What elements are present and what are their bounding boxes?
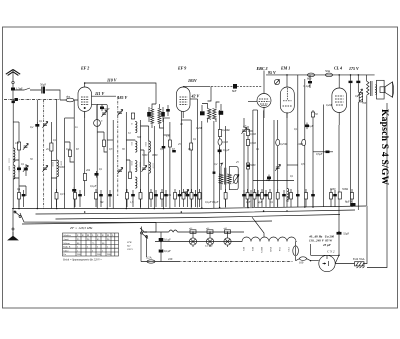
wire dash-dot gang link: [117, 96, 119, 196]
svg-text:220: 220: [168, 257, 173, 261]
resistor: [131, 113, 134, 119]
junction: [247, 207, 249, 209]
capacitor: [242, 190, 246, 207]
junction: [338, 74, 340, 76]
wire 95V bus right: [266, 70, 375, 75]
resistor: [198, 189, 201, 207]
main bus line 1: [12, 206, 366, 209]
speaker: [376, 80, 394, 99]
wire link: [248, 130, 253, 132]
wire 110V line: [84, 78, 156, 105]
resistor 1 M oval: [302, 139, 306, 145]
svg-text:111 V: 111 V: [95, 91, 105, 96]
coil antenna L1: [13, 148, 15, 162]
tube EF9: [177, 66, 191, 119]
capacitor: [154, 190, 158, 207]
junction: [106, 208, 108, 210]
coil Le: [149, 141, 151, 152]
capacitor at CL4 right 2: [356, 75, 360, 93]
barretter urdox: [293, 242, 299, 261]
capacitor: [194, 190, 198, 207]
svg-text:5000: 5000: [330, 188, 336, 191]
wire link: [107, 139, 113, 141]
capacitor 50 nF: [35, 122, 39, 129]
right loop from speaker: [367, 103, 387, 268]
wire: [163, 118, 165, 209]
svg-text:110...240 V 85 W: 110...240 V 85 W: [309, 239, 333, 243]
svg-text:185 V: 185 V: [118, 95, 128, 100]
wire 105V line: [183, 78, 262, 86]
svg-text:8μF +: 8μF +: [345, 200, 352, 204]
resistor 100: [296, 257, 319, 265]
svg-text:11111: 11111: [7, 158, 9, 163]
capacitor 0.1: [305, 123, 309, 130]
svg-text:0,1μF: 0,1μF: [90, 185, 97, 188]
capacitor: [249, 190, 253, 207]
svg-text:EM 1: EM 1: [280, 66, 290, 71]
wire AVC divider column: [219, 110, 221, 208]
trimmer capacitor: [42, 165, 47, 171]
wire: [323, 105, 325, 207]
junction: [209, 231, 211, 233]
coil oscillator Ld: [135, 177, 137, 188]
tube EF2: [78, 66, 92, 119]
trimmer capacitor: [117, 109, 122, 115]
svg-text:50nF: 50nF: [104, 108, 110, 111]
wire screen feed down: [153, 126, 155, 209]
svg-text:2nF: 2nF: [266, 179, 271, 182]
svg-text:0,1μF: 0,1μF: [307, 125, 314, 128]
resistor: [246, 130, 249, 136]
svg-text:8nF: 8nF: [232, 89, 237, 93]
output transformer primary zigzag: [367, 75, 373, 96]
wire coupling link: [253, 180, 294, 182]
capacitor 0.1: [218, 148, 222, 155]
capacitor 0.1uF upper: [159, 232, 171, 249]
capacitor at antenna column: [12, 101, 15, 104]
wire: [112, 120, 114, 209]
junction blob: [247, 165, 250, 167]
wire EF2 grid2 right: [92, 105, 97, 120]
svg-text:uka: uka: [66, 95, 71, 99]
svg-text:4μF: 4μF: [258, 201, 263, 204]
svg-text:1μF: 1μF: [246, 201, 251, 204]
trimmer capacitor: [241, 127, 246, 133]
wire: [286, 196, 288, 207]
capacitor: [264, 190, 268, 207]
wire: [64, 118, 66, 209]
mains switch: [140, 227, 148, 258]
junction: [84, 211, 86, 213]
svg-text:EF 2: EF 2: [80, 66, 89, 71]
dial lamp 2: [206, 230, 213, 247]
wire EF9 plate right: [190, 98, 198, 100]
wire rectifier to field coil: [335, 263, 354, 265]
capacitor 32uF: [337, 232, 350, 236]
resistor: [139, 189, 142, 207]
svg-text:0,4M: 0,4M: [326, 104, 332, 107]
resistor: [55, 189, 58, 207]
wire: [357, 102, 359, 210]
capacitor 0.1 at CL4 grid: [324, 151, 334, 154]
wire link osc: [126, 126, 148, 140]
capacitor: [282, 190, 286, 207]
junction: [312, 206, 314, 208]
svg-text:110 V: 110 V: [107, 78, 117, 83]
capacitor at CL4 right 1: [349, 75, 353, 106]
capacitor 8nF: [232, 84, 237, 93]
resistor: [150, 189, 153, 207]
capacitor 0.1uF lower: [159, 249, 171, 262]
resistor: [69, 150, 72, 157]
resistor 0.1 M oval: [218, 139, 222, 145]
capacitor: [296, 190, 300, 207]
capacitor: [108, 190, 112, 207]
svg-text:100: 100: [299, 261, 304, 265]
tube CL4: [332, 66, 359, 126]
resistor on 95V bus: [307, 73, 315, 80]
wire jog: [97, 132, 104, 140]
tube EBC3: [248, 66, 271, 118]
svg-text:0,1μF·0,1μF: 0,1μF·0,1μF: [205, 201, 219, 204]
junction: [358, 74, 360, 76]
resistor: [351, 189, 354, 207]
measurement table: [63, 233, 119, 256]
lamp rail bottom: [155, 241, 240, 243]
svg-text:50Ω: 50Ω: [325, 69, 330, 73]
junction blob: [213, 172, 216, 174]
capacitor beside coil: [166, 105, 170, 116]
potentiometer by EM1: [274, 79, 279, 84]
trimmer capacitor: [42, 121, 47, 127]
svg-text:31: 31: [130, 123, 132, 125]
wire: [197, 99, 199, 208]
junction: [160, 241, 162, 243]
resistor 40 k: [83, 174, 86, 181]
svg-text:95 V: 95 V: [268, 70, 276, 75]
wire trimmer column: [243, 118, 245, 207]
wire: [304, 79, 306, 207]
capacitor: [162, 146, 166, 148]
junction: [56, 208, 58, 210]
wire: [277, 120, 279, 207]
svg-text:0,2M: 0,2M: [196, 127, 202, 130]
junction: [227, 231, 229, 233]
junction: [304, 206, 306, 208]
svg-text:M: M: [107, 235, 109, 237]
wire: [56, 100, 58, 209]
svg-text:M: M: [87, 235, 89, 237]
wire: [140, 120, 142, 209]
wire: [73, 100, 75, 209]
wire: [257, 110, 259, 196]
svg-text:500Ω: 500Ω: [342, 188, 348, 191]
coil L3: [57, 160, 59, 177]
wire: [36, 100, 38, 209]
resistor: [182, 189, 185, 207]
svg-text:Kath. K: Kath. K: [63, 247, 71, 249]
wire bus to heater chain diagonal: [252, 217, 264, 237]
wire: [297, 75, 299, 207]
junction dots lamp rails: [192, 241, 194, 243]
resistor: [161, 189, 164, 207]
dial lamp 1: [189, 230, 196, 247]
svg-text:0,5M: 0,5M: [250, 142, 256, 145]
mains info text: [308, 235, 335, 248]
capacitor 0.1: [95, 171, 99, 178]
svg-text:11110: 11110: [152, 163, 154, 169]
junction: [350, 74, 352, 76]
svg-text:0,1μF: 0,1μF: [223, 149, 230, 152]
svg-text:32μF: 32μF: [343, 232, 349, 236]
resistor: [174, 189, 177, 207]
junction: [263, 210, 265, 212]
svg-text:0,25M: 0,25M: [280, 143, 288, 146]
svg-text:Schalter: Schalter: [63, 235, 71, 237]
wire jog: [19, 186, 26, 196]
main bus line 2: [36, 210, 356, 214]
wire link: [164, 134, 170, 136]
trimmer capacitor: [117, 167, 122, 173]
capacitor antenna series: [11, 87, 23, 100]
field resistor hatched: [355, 262, 365, 268]
capacitor: [311, 190, 315, 207]
wire CL4 grid cap: [313, 151, 326, 153]
wire: [312, 110, 314, 207]
capacitor: [172, 150, 176, 152]
svg-text:1MΩ: 1MΩ: [297, 143, 303, 146]
wire link: [13, 121, 19, 123]
coil oscillator Lb: [135, 141, 137, 152]
resistor: [224, 189, 227, 207]
resistor: [246, 163, 249, 169]
trimmer capacitor: [183, 189, 188, 195]
wire EF2 plate right: [92, 95, 117, 97]
wire EBC3 cathode down: [263, 110, 265, 196]
svg-text:105V: 105V: [188, 78, 197, 83]
resistor: [190, 143, 193, 150]
fuse 0,2A: [146, 256, 155, 264]
svg-text:EBC3: EBC3: [260, 247, 263, 254]
capacitor: [164, 190, 168, 207]
wire switch linkage: [120, 223, 156, 233]
wire field to right riser: [364, 206, 367, 264]
wire link: [51, 160, 56, 178]
lamp rail top: [150, 231, 244, 233]
capacitor: [333, 190, 337, 207]
trimmer capacitor: [23, 143, 28, 149]
svg-text:500: 500: [137, 136, 142, 139]
wire: [213, 121, 215, 208]
wire grid link: [97, 104, 107, 106]
resistor: [95, 189, 98, 207]
STW text block: [126, 241, 133, 251]
svg-text:5000: 5000: [250, 164, 256, 167]
wire: [350, 106, 352, 207]
capacitor: [17, 166, 21, 173]
svg-text:Ua: Ua: [63, 254, 66, 256]
wire: [225, 126, 227, 208]
svg-text:5000: 5000: [59, 166, 65, 169]
value labels texture: [15, 95, 367, 204]
wire: [247, 126, 249, 208]
resistor: [190, 189, 193, 207]
heater chain: [240, 237, 297, 254]
resistor 1 M: [17, 142, 20, 150]
resistor: [305, 189, 308, 207]
tube EM1: [280, 66, 294, 119]
resistor 0.2 M: [218, 130, 221, 137]
resistor: [168, 140, 171, 147]
svg-text:220 V: 220 V: [127, 248, 133, 251]
IF transformer T2: [219, 163, 239, 190]
resistor: [311, 112, 314, 117]
main bus line 3: [56, 215, 341, 220]
svg-text:700: 700: [362, 102, 367, 105]
resistor: [126, 189, 129, 207]
resistor: [18, 189, 21, 207]
rectifier CY2: [319, 250, 335, 272]
junction: [163, 208, 165, 210]
junction: [338, 231, 340, 233]
svg-text:0,1μF: 0,1μF: [164, 249, 171, 253]
wire EF2 cathode down: [84, 112, 86, 197]
junction: [154, 208, 156, 210]
capacitor on lower antenna wire: [15, 98, 18, 101]
svg-text:0000: 0000: [152, 154, 158, 157]
capacitor near EM1: [304, 75, 313, 88]
table row labels: [63, 235, 114, 256]
wire output transformer return riser: [366, 96, 368, 206]
svg-text:0,15: 0,15: [60, 193, 65, 196]
svg-text:C Y 2: C Y 2: [327, 250, 335, 254]
wire: [252, 110, 254, 208]
trimmer capacitor: [275, 164, 280, 170]
wire jog: [65, 142, 70, 150]
capacitor 50pF: [40, 82, 60, 100]
trimmer capacitor: [141, 165, 146, 171]
junction: [18, 208, 20, 210]
wire antenna row: [13, 88, 41, 90]
resistor 50ohm on bus: [325, 69, 333, 77]
junction: [201, 207, 203, 209]
svg-text:EM1: EM1: [269, 247, 272, 253]
wire jog: [141, 150, 145, 166]
wire: [273, 120, 275, 207]
junction: [286, 74, 288, 76]
plug uka: [60, 95, 78, 102]
wire jog: [104, 147, 107, 153]
wire jog: [126, 160, 130, 172]
junction: [338, 255, 340, 256]
wire cathode link EF9: [164, 117, 170, 119]
trimmer capacitor: [101, 110, 106, 116]
coil Lf: [149, 162, 151, 173]
resistor: [290, 189, 293, 207]
EBC3 cathode hatch: [261, 106, 267, 108]
junction: [219, 207, 221, 209]
junction: [192, 231, 194, 233]
wire cathode link EF2: [65, 117, 75, 119]
svg-text:11110: 11110: [139, 162, 141, 168]
coil oscillator Lc: [135, 161, 137, 172]
capacitor: [131, 190, 135, 207]
IF transformer T0: [147, 104, 165, 128]
capacitor: [78, 190, 82, 207]
svg-text:0,3M: 0,3M: [250, 133, 256, 136]
wire dash-dot gang link: [43, 100, 45, 209]
capacitor 8uF on bus: [345, 200, 356, 207]
coil choke above bus: [287, 189, 289, 200]
ground switch cluster: [8, 209, 120, 241]
svg-text:0,2MΩ: 0,2MΩ: [222, 129, 230, 132]
coil antenna L2: [13, 165, 15, 179]
wire link: [181, 119, 191, 121]
tone switch arrow: [358, 89, 363, 97]
svg-text:Feld 7mA: Feld 7mA: [353, 257, 366, 261]
resistor: [330, 189, 333, 207]
resistor 500: [338, 192, 341, 199]
wire link: [287, 164, 298, 166]
svg-text:Schirm: Schirm: [63, 243, 70, 245]
svg-text:0,2A: 0,2A: [146, 256, 153, 260]
svg-text:0,1μF: 0,1μF: [304, 84, 311, 88]
IF transformer T1: [200, 86, 223, 122]
resistor: [103, 140, 106, 147]
svg-text:5000: 5000: [142, 154, 148, 157]
heater coil in rail: [169, 230, 178, 232]
main bus line 4: [22, 221, 272, 224]
svg-text:Gitter: Gitter: [63, 250, 69, 252]
antenna: [6, 70, 20, 89]
wire link: [13, 160, 19, 178]
wire: [148, 126, 150, 209]
mains wire: [141, 261, 178, 263]
junction: [37, 208, 39, 210]
svg-text:EBC 3: EBC 3: [256, 66, 268, 71]
resistor: [276, 189, 279, 207]
capacitor: [99, 190, 103, 207]
wire lower dashdot: [4, 99, 60, 101]
capacitor: [22, 190, 26, 207]
resistor: [129, 172, 132, 179]
wire: [18, 122, 20, 209]
svg-text:CL 4: CL 4: [334, 66, 342, 71]
resistor 0.25 M oval: [276, 139, 280, 145]
wire link: [253, 109, 258, 111]
padding capacitor circle: [94, 119, 103, 126]
capacitor: [256, 190, 260, 207]
svg-text:50μF: 50μF: [40, 82, 46, 86]
lamp value labels: [188, 228, 228, 230]
resistor: [50, 143, 53, 151]
resistor: [246, 189, 249, 207]
svg-text:EF 9: EF 9: [177, 66, 186, 71]
svg-text:Strich = Spannungswerte für 22: Strich = Spannungswerte für 220 V∼: [63, 259, 103, 262]
dial lamp 3: [224, 230, 231, 247]
wire: [201, 121, 203, 208]
capacitor grid: [72, 187, 76, 194]
wire jog: [70, 157, 74, 163]
svg-text:600: 600: [307, 77, 312, 81]
svg-text:Kapsch S 4 S/GW: Kapsch S 4 S/GW: [379, 109, 390, 186]
wire: [50, 122, 52, 209]
CL4 cathode vertical: [335, 125, 339, 264]
wire: [106, 105, 108, 209]
svg-text:25 μF: 25 μF: [322, 243, 332, 247]
resistor: [253, 189, 256, 207]
resistor: [261, 189, 264, 207]
